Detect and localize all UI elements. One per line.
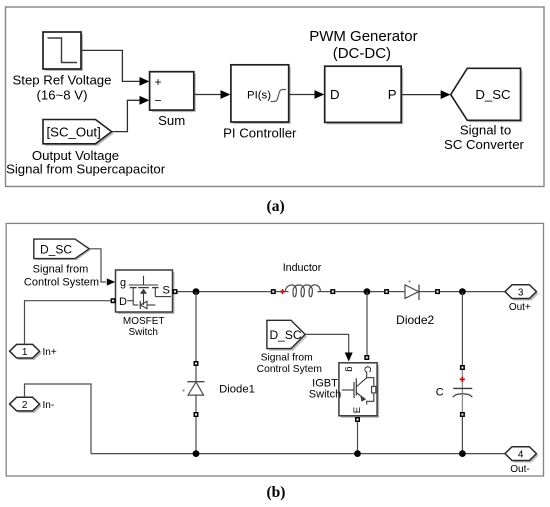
svg-text:g: g: [344, 366, 355, 371]
wire capacitor to bottom bus: [461, 417, 463, 454]
port square Diode1 bottom: [194, 412, 199, 417]
wire PI to PWM generator: [289, 90, 325, 99]
label Signal from Control Sytem: [257, 353, 322, 375]
svg-text:D: D: [330, 87, 340, 102]
wire bottom bus: [91, 453, 505, 455]
igbt icon: [342, 389, 354, 391]
svg-text:Out-: Out-: [510, 464, 529, 475]
node junction capacitor branch: [459, 288, 466, 295]
From tag [SC_Out]: [43, 120, 114, 146]
transistor block MOSFET Switch: [116, 270, 175, 314]
wire step to sum plus input: [81, 50, 149, 85]
wire IGBT E to bottom bus: [357, 422, 359, 454]
svg-text:(DC-DC): (DC-DC): [333, 45, 391, 62]
port square Diode1 top: [194, 361, 199, 366]
wire In- to bottom bus: [25, 384, 92, 454]
port square inductor right: [330, 289, 335, 294]
port Out- (4): [505, 447, 538, 475]
wire Diode2 to Out+: [440, 291, 505, 293]
svg-text:Step Ref Voltage: Step Ref Voltage: [13, 73, 112, 88]
diode D1 (vertical): [182, 366, 204, 412]
wire sum to PI controller: [194, 90, 231, 99]
svg-text:Signal from Supercapacitor: Signal from Supercapacitor: [6, 162, 166, 177]
wire SC_Out to sum minus input: [112, 96, 150, 132]
svg-text:+: +: [155, 75, 162, 89]
capacitor C: [436, 370, 473, 412]
port Out+ (3): [505, 285, 538, 313]
node junction IGBT E / bus: [354, 450, 361, 457]
wire top bus to IGBT collector: [366, 292, 368, 355]
label Signal to SC Converter: [444, 123, 524, 152]
svg-text:[SC_Out]: [SC_Out]: [47, 124, 101, 139]
transistor block IGBT Switch: [339, 363, 379, 418]
wire D_SC tag to IGBT gate: [305, 334, 353, 361]
wire In+ to MOSFET D: [25, 301, 111, 345]
svg-text:Signal to: Signal to: [460, 123, 511, 138]
label Diode1: [219, 383, 255, 395]
label PI Controller: [223, 126, 297, 141]
svg-text:Control System: Control System: [24, 276, 99, 288]
port square IGBT C: [364, 355, 369, 360]
svg-text:In+: In+: [43, 347, 57, 358]
Sum block: [150, 72, 196, 112]
port square MOSFET D: [111, 298, 116, 303]
svg-text:PI Controller: PI Controller: [223, 126, 297, 141]
port In+ (1): [10, 344, 57, 360]
label IGBT Switch: [309, 378, 341, 401]
svg-text:D_SC: D_SC: [270, 328, 302, 342]
wire PWM to goto tag: [401, 90, 450, 99]
svg-text:Out+: Out+: [509, 302, 531, 313]
svg-text:D_SC: D_SC: [475, 87, 511, 102]
svg-text:(16~8 V): (16~8 V): [37, 88, 88, 103]
svg-text:Sum: Sum: [158, 113, 185, 128]
svg-text:g: g: [120, 277, 126, 289]
panel (b) frame: [6, 223, 543, 476]
wire inductor to Diode2: [335, 291, 384, 293]
port square IGBT E: [355, 417, 360, 422]
port square C top: [460, 365, 465, 370]
svg-text:Diode1: Diode1: [219, 383, 255, 395]
caption (a): [267, 198, 285, 215]
polarity + inductor: [280, 289, 285, 294]
svg-text:Signal from: Signal from: [33, 264, 89, 276]
svg-text:3: 3: [518, 287, 524, 298]
wire Diode1 to bottom bus: [195, 417, 197, 454]
wire capacitor branch top: [461, 292, 463, 365]
svg-text:1: 1: [22, 347, 28, 358]
port In- (2): [10, 397, 55, 413]
diode D2 (horizontal): [389, 280, 435, 300]
node junction capacitor / bus: [459, 450, 466, 457]
svg-text:MOSFET: MOSFET: [123, 316, 165, 327]
svg-text:Inductor: Inductor: [283, 262, 322, 274]
svg-text:Diode2: Diode2: [396, 313, 434, 327]
wire D_SC tag to MOSFET gate: [89, 249, 115, 286]
svg-text:D: D: [119, 296, 127, 308]
node junction S / Diode1: [193, 288, 200, 295]
label Signal from Control System: [24, 264, 99, 289]
svg-text:PWM Generator: PWM Generator: [309, 28, 417, 45]
port square C bottom: [460, 412, 465, 417]
label MOSFET Switch: [123, 316, 165, 338]
label Inductor: [283, 262, 322, 274]
svg-text:Switch: Switch: [309, 389, 341, 401]
svg-text:Control Sytem: Control Sytem: [257, 364, 322, 375]
port square Diode2 left: [384, 289, 389, 294]
svg-text:PI(s): PI(s): [247, 90, 271, 102]
mosfet icon: [143, 276, 145, 285]
goto tag D_SC (control signal, IGBT): [267, 320, 307, 350]
svg-text:(b): (b): [267, 484, 286, 501]
svg-text:E: E: [352, 407, 363, 413]
annotation PWM Generator (DC-DC): [309, 28, 417, 62]
wire Diode1 branch down: [195, 292, 197, 361]
svg-text:−: −: [155, 94, 162, 108]
label Output Voltage Signal from Supercapacitor: [6, 148, 166, 177]
wire MOSFET S to inductor (top bus left): [178, 291, 271, 293]
inductor L coil: [276, 285, 331, 297]
svg-text:P: P: [388, 87, 397, 102]
step source block Step Ref Voltage: [43, 32, 83, 71]
goto tag D_SC Signal to SC Converter: [451, 68, 523, 122]
node junction IGBT branch: [364, 288, 371, 295]
label Step Ref Voltage: [13, 73, 112, 103]
svg-text:(a): (a): [267, 198, 285, 215]
svg-text:S: S: [163, 284, 170, 296]
caption (b): [267, 484, 286, 501]
panel (a) frame: [6, 7, 545, 187]
port square MOSFET S: [173, 289, 178, 294]
port square inductor left: [271, 289, 276, 294]
svg-text:2: 2: [22, 400, 28, 411]
goto tag D_SC (control signal, MOSFET): [34, 239, 91, 260]
svg-text:4: 4: [518, 449, 524, 460]
svg-text:In-: In-: [43, 400, 55, 411]
port square Diode2 right: [435, 289, 440, 294]
svg-text:Signal from: Signal from: [261, 353, 313, 364]
svg-text:SC Converter: SC Converter: [444, 137, 524, 152]
svg-text:Switch: Switch: [128, 327, 157, 338]
block PWM Generator: [325, 66, 404, 124]
svg-text:D_SC: D_SC: [40, 243, 72, 257]
label Diode2: [396, 313, 434, 327]
node junction Diode1 / bus: [193, 450, 200, 457]
svg-text:C: C: [436, 387, 444, 399]
label Sum: [158, 113, 185, 128]
op-amp-block PI Controller: [231, 65, 291, 124]
